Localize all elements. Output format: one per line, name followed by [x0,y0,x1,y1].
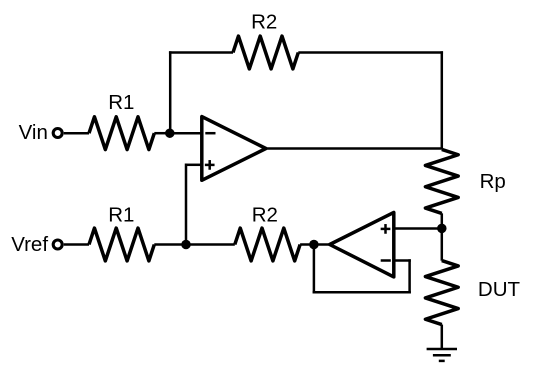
terminal Vin [53,129,62,138]
svg-text:Vref: Vref [11,233,48,256]
resistor R1 (top row) [89,117,154,150]
label Vref [11,233,48,256]
wire feedback right vertical [408,259,411,293]
wire feedback bottom horizontal [313,291,411,294]
wire DUT to ground [441,325,444,350]
svg-text:Rp: Rp [480,170,506,193]
ground [427,349,457,361]
wire R1 to node B [154,243,186,246]
resistor R2 (bottom row) [235,228,300,261]
label Vin [19,121,48,144]
node A junction dot [165,128,175,138]
wire feedback left vertical to node C [313,245,316,294]
wire op-amp U2 inverting input right segment [394,259,411,262]
svg-text:R2: R2 [251,11,277,34]
label Rp [480,170,506,193]
op-amp U1 minus symbol [205,132,215,135]
wire node C to op-amp U2 output [314,243,330,246]
wire R2 to right rail [298,51,443,54]
wire op-amp U1 noninverting input vertical to node B [185,164,188,245]
wire op-amp U1 output to right rail [266,147,442,150]
wire Rp to node D [441,213,444,228]
node C junction dot [309,240,319,250]
op-amp U1 plus symbol [205,160,215,170]
wire Vref terminal to R1 [64,243,89,246]
wire right rail down to Rp [441,51,444,149]
wire Vin terminal to R1 [64,132,89,135]
op-amp U2 plus symbol [381,224,391,234]
op-amp U2 minus symbol [381,259,391,262]
label DUT [478,278,521,301]
op-amp U1 [202,117,266,181]
resistor DUT [425,261,458,325]
resistor R1 (bottom row) [89,228,154,261]
terminal Vref [53,240,62,249]
svg-text:R2: R2 [252,203,278,226]
wire op-amp U1 noninverting input horizontal [186,164,202,167]
svg-text:R1: R1 [108,91,134,114]
wire node A up to feedback [169,51,172,133]
label R1 (bottom row) [108,203,134,226]
wire R2 to node C [300,243,314,246]
label R2 (bottom row) [252,203,278,226]
wire node D to DUT [441,228,444,260]
svg-text:DUT: DUT [478,278,521,301]
resistor Rp [425,149,458,213]
wire R1 to node A [154,132,170,135]
label R1 (top row) [108,91,134,114]
node B junction dot [181,240,191,250]
wire node B to R2 [186,243,235,246]
label R2 (feedback top) [251,11,277,34]
wire feedback top left segment [169,51,233,54]
node D junction dot [437,224,447,234]
svg-text:Vin: Vin [19,121,48,144]
op-amp U2 [330,212,394,277]
svg-text:R1: R1 [108,203,134,226]
wire op-amp U2 noninverting input to node D [394,227,442,230]
wire node A to op-amp U1 inverting input [170,132,216,135]
resistor R2 (feedback top) [233,36,298,69]
